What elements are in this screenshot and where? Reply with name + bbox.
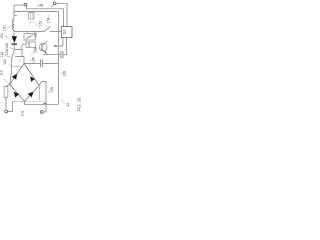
svg-text:102: 102 xyxy=(21,111,25,117)
svg-text:132: 132 xyxy=(3,59,7,65)
svg-text:FIG. 10: FIG. 10 xyxy=(77,97,82,112)
svg-text:130: 130 xyxy=(2,25,6,31)
svg-text:150: 150 xyxy=(0,33,4,39)
svg-text:148: 148 xyxy=(38,4,44,8)
svg-text:112: 112 xyxy=(0,70,4,76)
svg-text:124/136: 124/136 xyxy=(5,43,9,55)
svg-text:154: 154 xyxy=(47,17,51,23)
svg-text:116: 116 xyxy=(50,87,54,93)
svg-text:110: 110 xyxy=(62,29,66,34)
svg-text:134: 134 xyxy=(32,57,36,63)
svg-text:118: 118 xyxy=(0,52,4,58)
svg-text:12: 12 xyxy=(66,103,70,107)
svg-text:128: 128 xyxy=(63,71,67,77)
svg-text:138: 138 xyxy=(34,47,38,53)
svg-text:140: 140 xyxy=(27,42,31,47)
svg-text:120: 120 xyxy=(33,32,37,38)
svg-text:152: 152 xyxy=(39,20,43,26)
